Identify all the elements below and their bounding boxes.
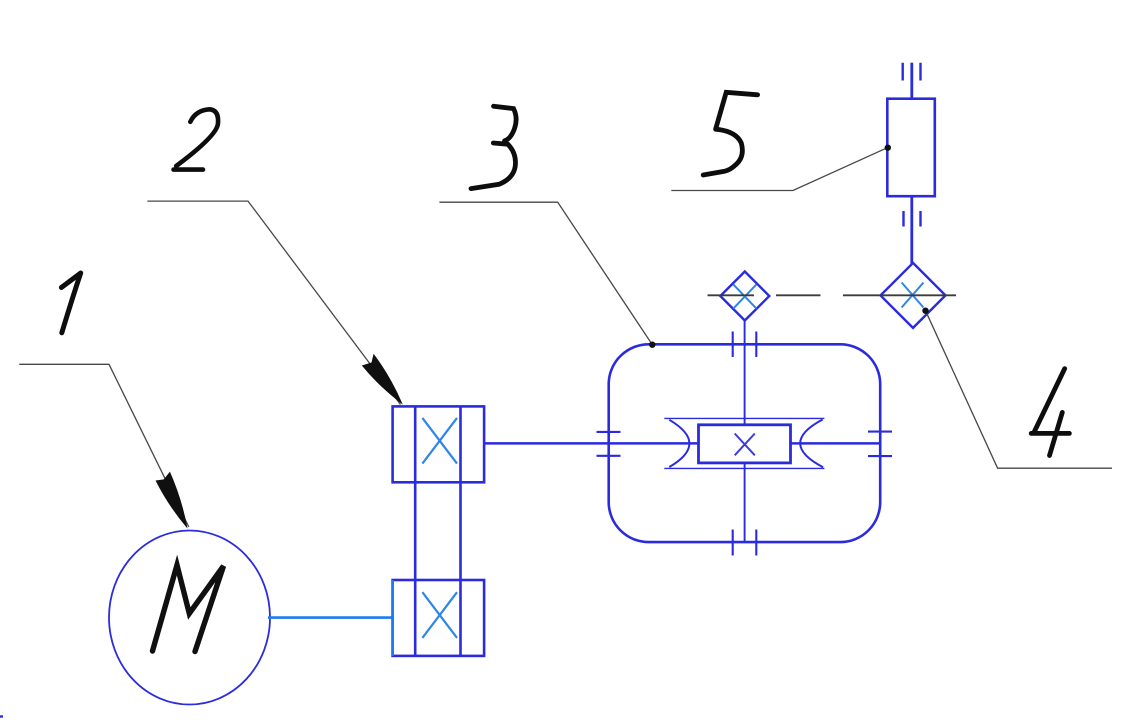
wire input shaft pulley to gearbox <box>484 442 698 445</box>
motor M1 circle <box>109 531 270 705</box>
leader dot 4 <box>922 308 928 314</box>
label digit 2 <box>174 109 219 169</box>
bottom pulley left edge highlight <box>391 580 394 656</box>
wire vertical output shaft upper <box>744 321 746 425</box>
gearbox housing (element 3) <box>609 344 881 542</box>
leader line 1 <box>19 364 189 527</box>
worm wheel envelope bottom <box>664 467 824 469</box>
wire input shaft inside gearbox right part <box>791 442 881 445</box>
belt right strand <box>459 406 462 656</box>
bearing bottom wall <box>733 530 757 556</box>
label digit 4 <box>1031 369 1069 456</box>
leader line 4 <box>926 311 1113 469</box>
motor letter M <box>153 565 224 652</box>
worm wheel left arc <box>669 420 689 467</box>
worm cross X <box>735 434 755 456</box>
worm (rect with X) <box>699 425 791 463</box>
worm wheel envelope top <box>664 417 824 419</box>
wire motor shaft to pulley <box>268 616 394 619</box>
actuator element 5 rect <box>887 99 935 197</box>
leader line 2 <box>147 201 400 404</box>
coupling right X <box>902 283 924 308</box>
leader line 3 <box>439 202 652 345</box>
belt left strand <box>414 406 417 656</box>
label digit 1 <box>61 273 80 333</box>
wire vertical output shaft lower <box>744 463 746 542</box>
worm wheel right arc <box>800 420 823 468</box>
arrowhead leader 1 <box>156 472 188 529</box>
coupling right diamond (element 4) <box>881 263 946 328</box>
belt drive pulley top (element 2) <box>393 406 485 482</box>
arrowhead leader 2 <box>362 354 403 405</box>
coupling left X <box>733 284 756 308</box>
belt drive pulley bottom (element 2) <box>393 580 485 656</box>
bearing above element 5 <box>903 63 921 81</box>
bearing cross X top pulley <box>422 418 457 464</box>
bearing cross X bottom pulley <box>422 592 457 638</box>
centerline dash segment 2 <box>776 294 821 296</box>
label digit 5 <box>703 92 757 175</box>
wire shaft above element 5 <box>910 63 913 99</box>
leader line 5 <box>671 148 887 191</box>
bearing left wall <box>597 432 621 456</box>
bearing top wall <box>733 332 757 358</box>
label digit 3 <box>471 106 516 188</box>
coupling left diamond (element 4) <box>720 272 769 321</box>
wire shaft below element 5 <box>910 196 913 263</box>
centerline dash segment 1 <box>708 294 755 296</box>
bearing right wall <box>868 432 892 457</box>
stray blue mark bottom-left <box>0 715 3 717</box>
centerline dash segment 3 <box>843 294 956 296</box>
bearing below element 5 <box>904 211 921 227</box>
leader dot 3 <box>649 342 655 348</box>
leader dot 5 <box>885 145 891 151</box>
